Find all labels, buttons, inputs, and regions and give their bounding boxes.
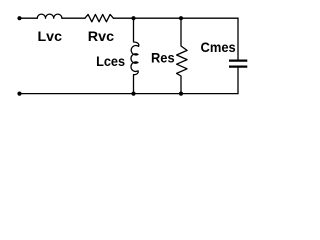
resistor Rvc (85, 14, 114, 21)
node: bottom-left return terminal (17, 92, 21, 96)
svg-text:Rvc: Rvc (88, 28, 115, 44)
node B junction (top of Res) (179, 16, 183, 20)
capacitor Cmes: plates (229, 59, 247, 61)
wire: bottom rail (20, 93, 239, 95)
wire: Lvc to Rvc (62, 17, 85, 19)
wire: top rail node A to node B (134, 17, 182, 19)
wire: top rail node B to capacitor corner (181, 17, 238, 19)
node: top-left input terminal (17, 16, 21, 20)
capacitor Cmes: bottom lead (237, 68, 239, 94)
inductor Lces (131, 18, 139, 93)
capacitor Cmes: top lead (237, 18, 239, 59)
node: bottom junction of Res (179, 92, 183, 96)
inductor Lvc (37, 14, 62, 18)
wire: Rvc to node A (113, 17, 133, 19)
node: bottom junction of Lces (131, 92, 135, 96)
svg-text:Lvc: Lvc (38, 28, 63, 44)
svg-text:Cmes: Cmes (201, 39, 236, 55)
node A junction (top of Lces) (131, 16, 135, 20)
wire: terminal to Lvc (20, 17, 38, 19)
svg-text:Lces: Lces (96, 53, 125, 69)
svg-text:Res: Res (151, 50, 175, 66)
resistor Res (177, 18, 188, 93)
